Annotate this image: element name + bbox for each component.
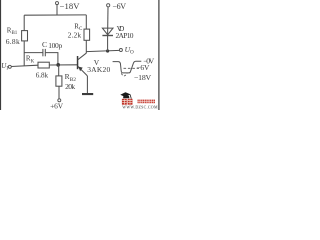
transistor V collector lead — [78, 53, 86, 60]
resistor RC — [84, 29, 90, 40]
page edge right — [158, 0, 159, 110]
svg-text:20k: 20k — [65, 82, 75, 91]
wire: emitter to ground — [86, 76, 88, 93]
transistor V emitter arrow PNP — [78, 67, 82, 72]
svg-text:RK: RK — [26, 55, 35, 65]
resistor RK — [38, 62, 49, 68]
svg-text:2AP10: 2AP10 — [116, 31, 134, 40]
resistor RB1 — [22, 31, 28, 41]
svg-text:100p: 100p — [48, 41, 62, 50]
svg-text:+6V: +6V — [50, 102, 64, 110]
terminal -6V top — [107, 4, 110, 7]
terminal -18V — [56, 2, 59, 5]
svg-text:UO: UO — [125, 45, 134, 56]
svg-text:−18V: −18V — [134, 73, 152, 82]
wire: cap branch right drop to base node — [46, 53, 58, 65]
wire: rail to RB1 — [23, 15, 25, 30]
wire: RB2 to +6V terminal — [58, 86, 60, 99]
node: diode junction dot — [106, 49, 109, 52]
svg-text:2.2k: 2.2k — [68, 30, 82, 39]
wire: RC to collector node — [85, 40, 87, 53]
node: base junction dot — [56, 63, 60, 67]
diode VD — [102, 28, 113, 35]
wire: rail to RC — [85, 15, 87, 29]
svg-text:−6V: −6V — [113, 2, 127, 11]
wire: -18V terminal riser — [56, 5, 58, 16]
waveform -6V dashed level — [124, 67, 140, 69]
wire: base node down to RB2 — [58, 65, 60, 76]
terminal +6V — [58, 99, 61, 102]
svg-text:UI: UI — [1, 62, 8, 71]
capacitor C 100p — [42, 49, 44, 56]
wire: top supply rail — [24, 14, 86, 16]
wire: RK to base — [49, 64, 77, 66]
terminal Ui — [8, 65, 11, 68]
svg-text:3AK20: 3AK20 — [87, 65, 110, 74]
svg-text:C: C — [42, 40, 47, 49]
svg-text:WWW.DZSC.COM: WWW.DZSC.COM — [122, 104, 158, 109]
page edge left — [0, 0, 1, 110]
watermark red character 2 — [128, 99, 133, 105]
svg-text:−18V: −18V — [60, 1, 81, 11]
wire: -6V terminal to diode — [107, 7, 109, 36]
svg-text:6.8k: 6.8k — [6, 37, 20, 46]
transistor V emitter lead — [78, 66, 88, 76]
waveform dashed undershoot dip — [121, 73, 127, 76]
watermark red character 1 — [122, 99, 127, 105]
watermark small red title characters — [138, 100, 156, 104]
wire: diode to collector node — [107, 36, 109, 51]
ground — [82, 93, 93, 95]
wire: input to RK — [11, 65, 38, 66]
resistor RB2 — [56, 76, 62, 86]
svg-text:RB1: RB1 — [7, 26, 18, 36]
wire: speed-up cap branch left — [24, 52, 42, 54]
waveform Uo solid trace — [113, 61, 142, 73]
terminal Uo — [119, 49, 122, 52]
svg-text:−6V: −6V — [136, 63, 150, 72]
wire: collector to output — [86, 50, 119, 51]
svg-text:6.8k: 6.8k — [36, 71, 49, 79]
transistor V base bar — [77, 56, 79, 69]
watermark hat icon — [120, 92, 130, 97]
wire: RB1 to input node — [23, 41, 25, 66]
